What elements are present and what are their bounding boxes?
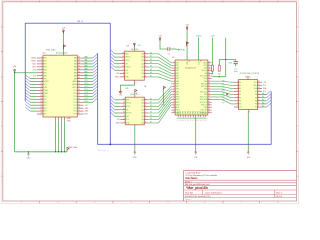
svg-text:34: 34 — [208, 77, 210, 79]
svg-text:15: 15 — [41, 98, 43, 100]
svg-text:26: 26 — [78, 98, 80, 100]
bus entry U2 left pin 10 — [25, 81, 30, 85]
bus entry U2 left pin 19 — [25, 107, 30, 111]
bus entry U2 right pin 36 — [93, 66, 97, 70]
svg-text:39: 39 — [78, 60, 80, 62]
svg-text:D2: D2 — [150, 59, 152, 61]
svg-text:C1: C1 — [235, 68, 237, 70]
svg-text:RESET: RESET — [44, 81, 49, 83]
svg-text:13: 13 — [122, 56, 124, 58]
svg-text:12: 12 — [123, 105, 125, 107]
svg-text:PC2: PC2 — [85, 95, 88, 97]
ic U4 left pin 5 — [120, 112, 125, 114]
ic U3 right pin 15 — [144, 76, 148, 78]
svg-text:40: 40 — [78, 57, 80, 59]
module U1 right pin 29 — [208, 91, 212, 93]
svg-text:P7: P7 — [255, 91, 257, 93]
svg-text:24: 24 — [208, 104, 210, 106]
wire U2 left pin 17 to bus — [30, 104, 37, 106]
svg-text:SRCLR: SRCLR — [126, 113, 132, 115]
svg-text:PC0: PC0 — [74, 111, 77, 113]
svg-text:GP0: GP0 — [176, 62, 179, 64]
ic U4 right pin 8 — [144, 99, 148, 101]
module U1 bottom pin 2 — [180, 115, 182, 117]
bus entry U2 right pin 29 — [93, 87, 97, 91]
svg-text:S7: S7 — [150, 121, 152, 123]
bus vertical segment left x=25 — [24, 23, 26, 101]
ic U2 left pin 17 — [37, 104, 43, 106]
wire U3 output 3 to U1 — [148, 60, 171, 68]
svg-text:PC5: PC5 — [85, 86, 88, 88]
module U1 right pin 31 — [208, 85, 212, 87]
wire flag stub down — [162, 91, 164, 103]
svg-text:12: 12 — [258, 93, 260, 95]
svg-text:GND: GND — [204, 107, 207, 109]
ic U5 right pin 18 — [258, 106, 263, 108]
module U1 right pin 21 — [208, 112, 212, 114]
svg-text:PC4: PC4 — [74, 99, 77, 101]
ic U2 left pin 14 — [37, 95, 43, 97]
svg-text:S2: S2 — [150, 105, 152, 107]
svg-text:SWD: SWD — [178, 111, 180, 114]
junction at (225.7,59.5) — [225, 59, 226, 60]
bus entry U2 right pin 30 — [93, 84, 97, 88]
svg-text:11: 11 — [41, 86, 43, 88]
svg-text:D0: D0 — [150, 52, 152, 54]
svg-text:Date: 2023-03-21: Date: 2023-03-21 — [206, 191, 223, 194]
module U1 left pin 11 — [171, 88, 175, 90]
svg-text:D3: D3 — [150, 62, 152, 64]
ic U2 bottom pin GND1 — [55, 117, 57, 120]
ic U5 right pin 11 — [258, 84, 263, 86]
module U1 left pin 8 — [171, 80, 175, 82]
svg-text:PB1: PB1 — [44, 61, 47, 63]
ic U5 left pin 9 — [234, 106, 239, 108]
module U1 left pin 17 — [171, 104, 175, 106]
bus entry U5 right pin 18 — [267, 103, 271, 107]
svg-text:GP5: GP5 — [176, 78, 179, 80]
bus entry U3 left pin 4 — [111, 60, 115, 64]
junction at (61.5,151.8) — [61, 151, 62, 152]
wire +5V to C2 — [160, 39, 167, 49]
module U1 right pin 40 — [208, 62, 212, 64]
ic U3 left pin 3 — [120, 59, 125, 61]
svg-text:10: 10 — [258, 99, 260, 101]
wire U2 bottom pin 3 down — [61, 120, 63, 152]
bus entry U2 left pin 15 — [25, 96, 30, 100]
svg-text:GP18_TX: GP18_TX — [201, 104, 207, 106]
svg-text:S1: S1 — [150, 102, 152, 104]
ic U3 body — [125, 51, 145, 80]
ic U5 right pin 16 — [258, 100, 263, 102]
svg-text:23: 23 — [208, 106, 210, 108]
svg-text:14: 14 — [122, 52, 124, 54]
svg-text:PC3: PC3 — [74, 102, 77, 104]
bus entry U3 left pin 5 — [111, 63, 115, 67]
power flag on U1 VBUS — [186, 42, 188, 46]
ic U5 right pin 12 — [258, 87, 263, 89]
wire U5 right pin 15 to bus — [262, 97, 267, 99]
svg-text:PD7: PD7 — [85, 114, 88, 116]
module U1 right pin 37 — [208, 70, 212, 72]
ic U3 bottom pin — [133, 80, 135, 83]
wire R1 bottom to U1 pin — [211, 71, 214, 73]
wire U2 left pin 15 to bus — [30, 98, 37, 100]
wire U1 GP3 to U5 pin 4 — [212, 89, 234, 91]
svg-text:QF: QF — [141, 116, 143, 118]
ic U5 right pin 14 — [258, 94, 263, 96]
svg-text:7: 7 — [123, 76, 124, 78]
svg-text:13: 13 — [123, 102, 125, 104]
wire U4 output 3 to U1 — [148, 92, 171, 107]
svg-text:C2: C2 — [167, 54, 169, 56]
wire U2 left pin 9 to bus — [30, 81, 37, 83]
svg-text:GND: GND — [176, 81, 179, 83]
svg-text:PD4: PD4 — [44, 108, 47, 110]
svg-text:21: 21 — [78, 113, 80, 115]
svg-text:GND: GND — [176, 107, 179, 109]
bus entry U2 right pin 25 — [93, 98, 97, 102]
wire C2 right — [170, 48, 176, 50]
wire U4 left pin 3 to bus — [115, 105, 121, 107]
wire U3 output 8 to U1 — [148, 77, 171, 81]
module U1 bottom pin 11 — [202, 115, 204, 117]
svg-text:GP10: GP10 — [176, 97, 180, 99]
svg-text:PD2: PD2 — [44, 102, 47, 104]
svg-text:PD0: PD0 — [44, 96, 47, 98]
ic U2 right pin 22 — [77, 110, 83, 112]
bus entry U2 right pin 34 — [93, 72, 97, 76]
svg-text:P7: P7 — [223, 102, 225, 104]
svg-text:29: 29 — [208, 90, 210, 92]
svg-text:16: 16 — [136, 93, 138, 95]
svg-text:PC6: PC6 — [74, 93, 77, 95]
ic U2 left pin 16 — [37, 101, 43, 103]
module U1 bottom pin 8 — [195, 115, 197, 117]
wire R2 top horizontal — [219, 59, 225, 61]
svg-text:Size: A4: Size: A4 — [185, 191, 193, 194]
svg-text:RUN: RUN — [204, 89, 207, 91]
ic U5 left pin 4 — [234, 91, 239, 93]
ground symbol GND3 — [194, 152, 197, 154]
ic U3 left pin 8 — [120, 76, 125, 78]
svg-text:GP19_SCK: GP19_SCK — [200, 102, 207, 104]
ic U3 left pin 4 — [120, 63, 125, 65]
svg-text:RST: RST — [32, 66, 35, 68]
module U1 bottom pin 7 — [192, 115, 194, 117]
wire U2 right pin 36 to bus — [84, 69, 93, 71]
ic U5 left pin 6 — [234, 97, 239, 99]
svg-text:SWD: SWD — [183, 111, 185, 114]
svg-text:GP9: GP9 — [176, 91, 179, 93]
wire U1 bottom pin to ground — [195, 117, 197, 152]
module U1 right pin 22 — [208, 109, 212, 111]
svg-text:P2: P2 — [239, 97, 241, 99]
ic U2 right pin 23 — [77, 107, 83, 109]
module U1 left pin 3 — [171, 67, 175, 69]
ic U4 left pin 1 — [120, 99, 125, 101]
bus entry U2 right pin 27 — [93, 93, 97, 97]
power flag in fan region — [163, 86, 165, 90]
svg-text:GND: GND — [176, 68, 179, 70]
svg-text:38: 38 — [78, 63, 80, 65]
ic U4 top pin — [134, 94, 136, 97]
wire U2 right pin 28 to bus — [84, 92, 93, 94]
module U1 bottom pin 5 — [187, 115, 189, 117]
svg-text:Id: 1/1: Id: 1/1 — [276, 196, 283, 198]
module U1 left pin 12 — [171, 91, 175, 93]
bus entry U2 left pin 13 — [25, 90, 30, 94]
svg-text:SWD: SWD — [195, 111, 197, 114]
svg-text:QF: QF — [141, 70, 143, 72]
wire R2 top — [218, 60, 220, 66]
svg-text:39: 39 — [208, 64, 210, 66]
power flag above U4 — [135, 89, 137, 93]
svg-text:PC1: PC1 — [85, 98, 88, 100]
svg-text:R2: R2 — [218, 74, 220, 76]
bus P[0..7] top horizontal segment — [25, 22, 110, 24]
svg-text:38: 38 — [208, 67, 210, 69]
svg-text:S5: S5 — [150, 115, 152, 117]
wire U1 GP6 to U5 pin 7 — [212, 97, 234, 101]
bus entry U2 left pin 16 — [25, 98, 30, 102]
bus entry U3 left pin 1 — [111, 50, 115, 54]
svg-text:PC0: PC0 — [85, 101, 88, 103]
wire U4 output 4 to U1 — [148, 94, 171, 109]
svg-text:P[0..7]: P[0..7] — [77, 21, 83, 23]
bus entry U4 left pin 2 — [111, 99, 115, 103]
svg-text:28: 28 — [78, 92, 80, 94]
ic U2 right pin 40 — [77, 57, 83, 59]
svg-text:PC6: PC6 — [85, 83, 88, 85]
wire U2 right pin 34 to bus — [84, 75, 93, 77]
wire U2 right pin 26 to bus — [84, 98, 93, 100]
svg-text:13: 13 — [41, 92, 43, 94]
wire R2 bottom to U1 pin — [212, 76, 226, 78]
module U1 right pin 32 — [208, 83, 212, 85]
ic U2 right pin 25 — [77, 101, 83, 103]
ic U5 right pin 13 — [258, 91, 263, 93]
ground symbol GND1 — [27, 152, 29, 154]
svg-text:28: 28 — [208, 93, 210, 95]
svg-text:GND: GND — [204, 81, 207, 83]
wire U2 right pin 31 to bus — [84, 84, 93, 86]
ic U3 left pin 2 — [120, 56, 125, 58]
svg-text:GP8: GP8 — [176, 89, 179, 91]
bus entry U4 left pin 3 — [111, 103, 115, 107]
svg-text:SWD: SWD — [193, 111, 195, 114]
module U1 right pin 39 — [208, 64, 212, 66]
svg-text:31: 31 — [208, 85, 210, 87]
ic U2 bottom pin GND2 — [58, 117, 60, 120]
svg-text:3V3_EN: 3V3_EN — [202, 70, 207, 72]
svg-text:16: 16 — [249, 76, 251, 78]
svg-text:R1: R1 — [211, 74, 213, 76]
svg-text:33: 33 — [78, 77, 80, 79]
bus entry U3 left pin 2 — [111, 53, 115, 57]
ic U2 left pin 6 — [37, 72, 43, 74]
svg-text:34: 34 — [78, 74, 80, 76]
svg-text:U5: U5 — [245, 77, 247, 79]
svg-text:35: 35 — [78, 71, 80, 73]
wire U2 left pin 18 to bus — [30, 107, 37, 109]
svg-text:15: 15 — [258, 84, 260, 86]
module U1 right pin 28 — [208, 93, 212, 95]
svg-text:P0: P0 — [239, 91, 241, 93]
junction at (28.4,151.8) — [28, 151, 29, 152]
svg-text:37: 37 — [78, 66, 80, 68]
svg-text:PC2: PC2 — [74, 105, 77, 107]
wire U2 right pin 35 to bus — [84, 72, 93, 74]
wire U2 left pin 19 to bus — [30, 110, 37, 112]
svg-text:SWD: SWD — [203, 111, 205, 114]
ic U2 right pin 38 — [77, 63, 83, 65]
capacitor C2 — [167, 47, 169, 51]
module U1 left pin 16 — [171, 101, 175, 103]
bus entry U5 right pin 16 — [267, 97, 271, 101]
svg-text:12: 12 — [41, 89, 43, 91]
ic U5 right pin 10 — [258, 81, 263, 83]
svg-text:QB: QB — [141, 57, 143, 59]
wire U3 left pin 2 to bus — [115, 56, 120, 58]
svg-text:31: 31 — [78, 83, 80, 85]
ic U3 right pin 9 — [144, 56, 148, 58]
svg-text:+3V3: +3V3 — [228, 62, 232, 64]
svg-text:XT1: XT1 — [33, 69, 36, 71]
bus vertical segment x=97.6 — [97, 53, 99, 144]
svg-text:PCF8574A_PDIP16: PCF8574A_PDIP16 — [240, 72, 260, 75]
svg-text:ATmega16A-P: ATmega16A-P — [56, 51, 68, 54]
module U1 right pin 34 — [208, 78, 212, 80]
ground symbol GND4 — [247, 152, 250, 154]
svg-text:GP11: GP11 — [176, 99, 180, 101]
svg-text:VSYS: VSYS — [203, 65, 207, 67]
power flag on ground rail — [67, 147, 69, 151]
wire U1 VBUS top — [186, 28, 188, 60]
svg-text:VBUS: VBUS — [203, 62, 207, 64]
wire U1 GP1 to U5 pin 2 — [212, 84, 234, 85]
ic U3 right pin 11 — [144, 63, 148, 65]
ic U2 right pin 39 — [77, 60, 83, 62]
module U1 left pin 9 — [171, 83, 175, 85]
svg-text:8: 8 — [123, 72, 124, 74]
svg-text:OE: OE — [126, 109, 128, 111]
module U1 bottom pin 9 — [197, 115, 199, 117]
wire U1 VSYS top — [198, 37, 200, 60]
ic U2 right pin 30 — [77, 87, 83, 89]
svg-text:PC5: PC5 — [74, 96, 77, 98]
wire U3 left pin 1 to bus — [115, 53, 120, 55]
power flag on U2 supply — [63, 45, 65, 49]
junction at (64.5,151.8) — [64, 151, 65, 152]
svg-text:19: 19 — [41, 110, 43, 112]
module U1 left pin 6 — [171, 75, 175, 77]
wire U3 left pin 4 to bus — [115, 63, 120, 65]
wire U5 right pin 14 to bus — [262, 94, 267, 96]
capacitor C1 — [235, 60, 237, 62]
svg-text:SRCLR: SRCLR — [125, 67, 131, 69]
wire U3 output 6 to U1 — [148, 70, 171, 76]
svg-text:S6: S6 — [150, 118, 152, 120]
svg-text:D1: D1 — [150, 56, 152, 58]
ic U5 top pin — [247, 76, 249, 80]
svg-text:QH*: QH* — [125, 70, 128, 72]
svg-text:QB: QB — [141, 103, 143, 105]
svg-text:XT2: XT2 — [33, 75, 36, 77]
ic U4 right pin 14 — [144, 119, 148, 121]
bus entry U5 right pin 14 — [267, 91, 271, 95]
svg-text:D7: D7 — [150, 75, 152, 77]
module U1 Raspberry Pi Pico body — [175, 60, 208, 115]
svg-text:INT: INT — [263, 85, 266, 87]
wire +3V3 to R1 — [211, 38, 213, 66]
bus entry U4 left pin 1 — [111, 96, 115, 100]
svg-text:+3V3: +3V3 — [210, 36, 214, 38]
svg-text:SWD: SWD — [198, 111, 200, 114]
ic U4 right pin 11 — [144, 109, 148, 111]
module U1 left pin 10 — [171, 85, 175, 87]
svg-text:13: 13 — [258, 90, 260, 92]
svg-text:D5: D5 — [150, 69, 152, 71]
wire U2 right pin 39 to bus — [84, 60, 93, 62]
svg-text:SRCLK: SRCLK — [125, 57, 131, 59]
svg-text:36: 36 — [78, 68, 80, 70]
wire U2 left pin 8 to bus — [30, 78, 37, 80]
svg-text:P3: P3 — [239, 100, 241, 102]
bus entry U2 right pin 26 — [93, 96, 97, 100]
svg-text:PC3: PC3 — [85, 92, 88, 94]
wire U2 left pin 12 to bus — [30, 89, 37, 91]
module U1 bottom pin 4 — [185, 115, 187, 117]
ic U2 left pin 7 — [37, 75, 43, 77]
svg-text:PB4: PB4 — [44, 69, 47, 71]
svg-text:22: 22 — [208, 109, 210, 111]
ic U4 left pin 4 — [120, 109, 125, 111]
wire U3 left pin 6 to bus — [115, 69, 120, 71]
ic U3 left pin 6 — [120, 69, 125, 71]
ic U3 left pin 7 — [120, 73, 125, 75]
svg-text:30: 30 — [208, 88, 210, 90]
svg-text:PB6: PB6 — [44, 75, 47, 77]
ic U3 left pin 1 — [120, 53, 125, 55]
svg-text:P2: P2 — [255, 107, 257, 109]
module U1 left pin 7 — [171, 78, 175, 80]
module U1 right pin 30 — [208, 88, 212, 90]
power symbol +5V above U3 — [133, 45, 135, 47]
ic U2 left pin 5 — [37, 69, 43, 71]
wire U4 output 6 to U1 — [148, 100, 171, 117]
module U1 bottom pin 3 — [182, 115, 184, 117]
wire U2 bottom pin 1 down — [55, 120, 57, 152]
svg-text:12: 12 — [122, 59, 124, 61]
bus entry U3 left pin 6 — [111, 67, 115, 71]
wire left rail vertical down — [14, 73, 16, 152]
wire U2 left pin 13 to bus — [30, 92, 37, 94]
ic U5 left pin 7 — [234, 100, 239, 102]
module U1 right pin 27 — [208, 96, 212, 98]
svg-text:QH*: QH* — [126, 116, 129, 118]
ic U2 left pin 19 — [37, 110, 43, 112]
ic U3 left pin 5 — [120, 66, 125, 68]
ic U4 right pin 12 — [144, 112, 148, 114]
ic U4 left pin 2 — [120, 102, 125, 104]
wire U4 left pin 4 to bus — [115, 109, 121, 111]
svg-text:OE: OE — [144, 86, 146, 88]
ic U2 left pin 11 — [37, 87, 43, 89]
ic U5 left pin 8 — [234, 103, 239, 105]
svg-text:27: 27 — [208, 96, 210, 98]
module U1 right pin 33 — [208, 80, 212, 82]
